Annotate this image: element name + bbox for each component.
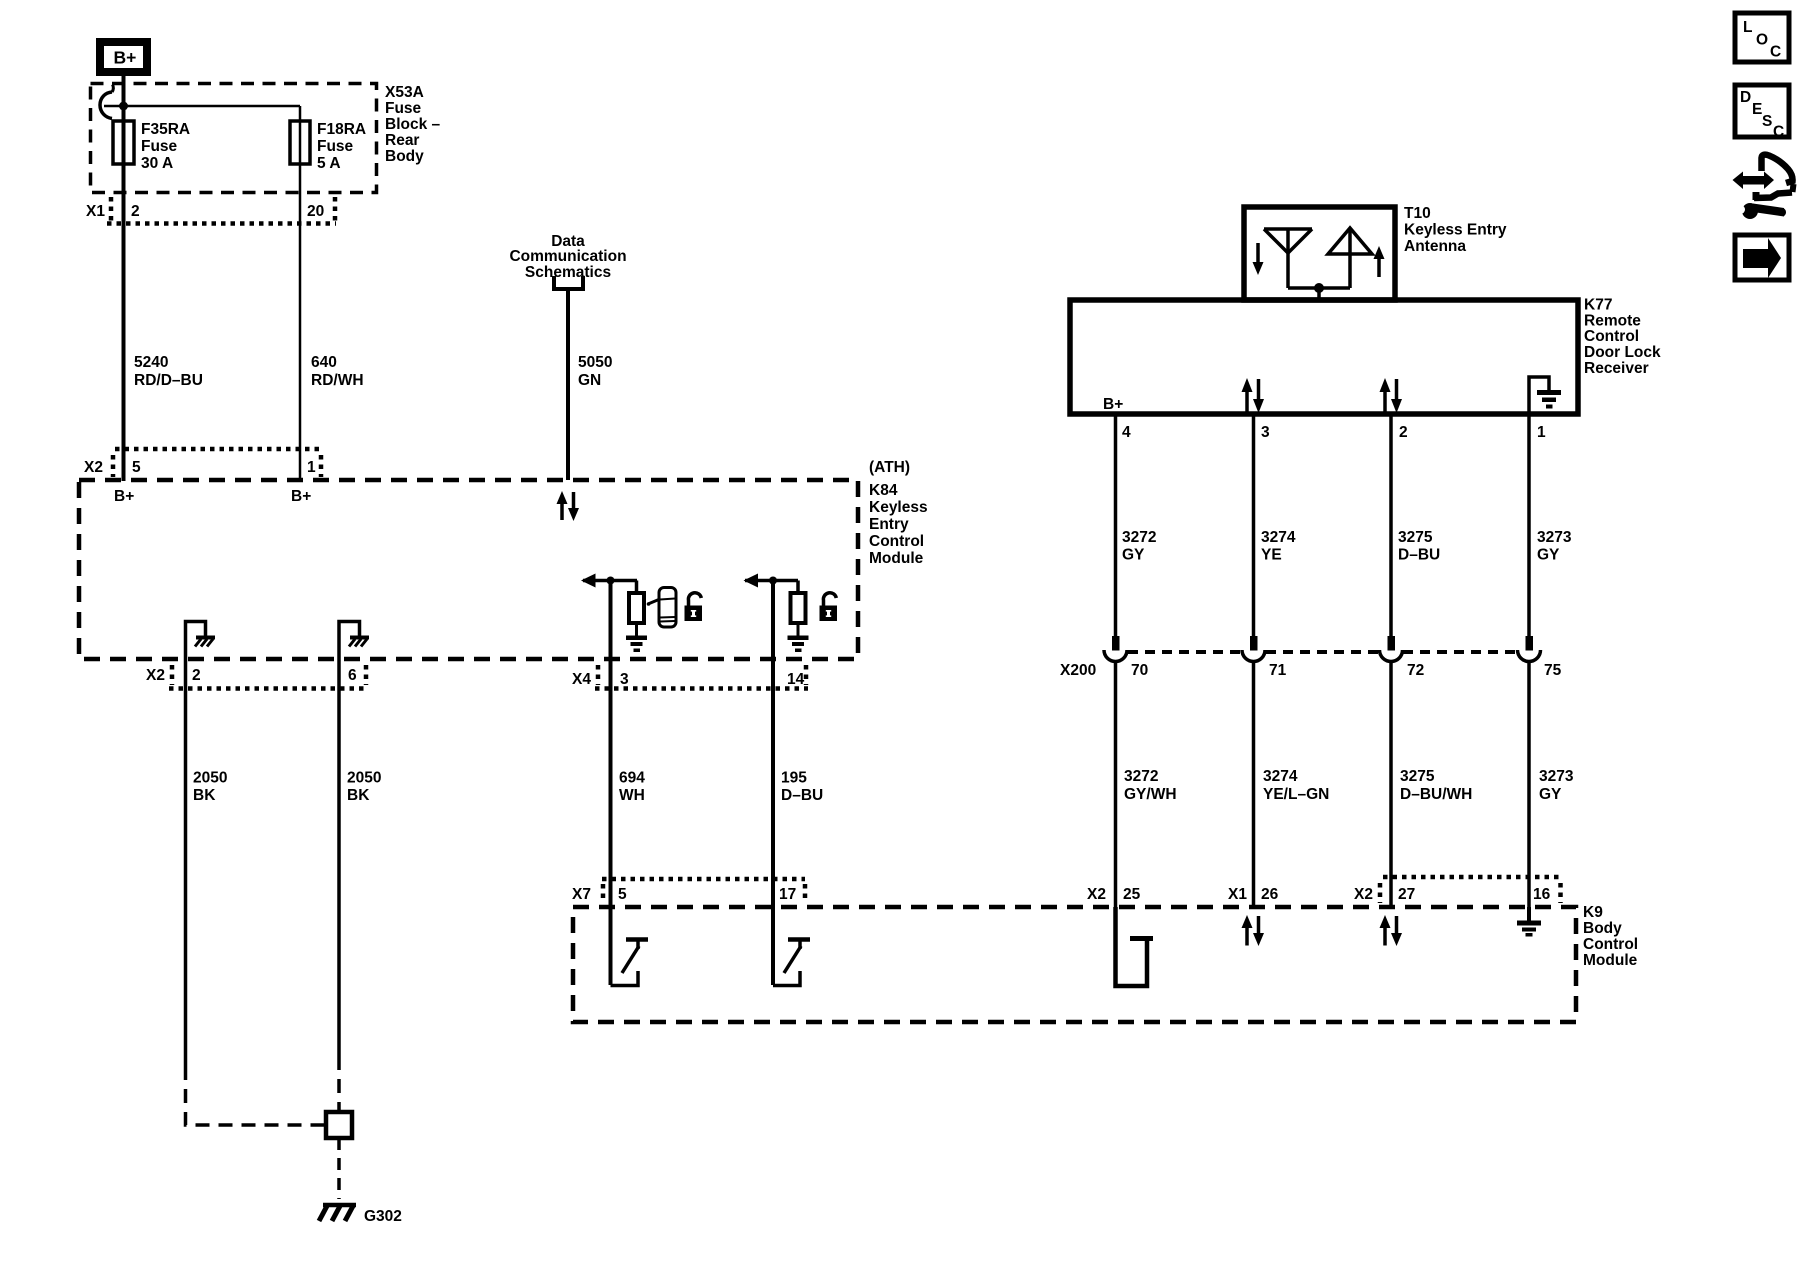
wire 3275 D-BU/WH (X200-72 to K9 X2-27) xyxy=(1389,661,1393,907)
svg-text:GN: GN xyxy=(578,372,601,389)
X200 dashed tie lines xyxy=(1128,650,1516,654)
svg-text:5050: 5050 xyxy=(578,354,612,371)
svg-text:X1: X1 xyxy=(86,203,105,220)
svg-text:3274: 3274 xyxy=(1261,529,1296,546)
svg-text:2: 2 xyxy=(192,667,201,684)
wire 2050 BK from X2 pin 2 xyxy=(184,659,188,1066)
fuse F18RA 5 A xyxy=(290,121,310,164)
label (ATH) K84 Keyless Entry Control Module xyxy=(869,459,928,567)
svg-text:640: 640 xyxy=(311,354,337,371)
connector X1 row (pins 2, 20) xyxy=(86,197,336,224)
dashed wire splice to G302 xyxy=(337,1138,341,1199)
X200 terminal at pin 71 xyxy=(1242,636,1287,679)
svg-text:BK: BK xyxy=(347,787,370,804)
forward arrow box xyxy=(1735,235,1789,280)
up arrow (transmit) xyxy=(1374,246,1385,277)
svg-text:2: 2 xyxy=(1399,424,1408,441)
K84 unlock driver output (pin 3) xyxy=(581,574,637,594)
svg-text:B+: B+ xyxy=(114,488,134,505)
svg-text:30 A: 30 A xyxy=(141,155,173,172)
label X53A Fuse Block - Rear Body xyxy=(385,84,441,165)
K9 switch at pin 5 xyxy=(611,940,649,986)
svg-text:X2: X2 xyxy=(1087,886,1106,903)
ground under lock resistor xyxy=(788,623,809,652)
wire 3273 GY (X200-75 to K9 pin 16) xyxy=(1527,661,1531,907)
svg-text:K9: K9 xyxy=(1583,904,1603,921)
svg-text:5240: 5240 xyxy=(134,354,168,371)
label K77 Remote Control Door Lock Receiver xyxy=(1584,297,1661,378)
svg-text:C: C xyxy=(1773,124,1784,141)
car icon xyxy=(647,588,676,628)
svg-text:(ATH): (ATH) xyxy=(869,459,910,476)
svg-text:Antenna: Antenna xyxy=(1404,238,1466,255)
svg-text:25: 25 xyxy=(1123,886,1141,903)
X200 terminal at pin 75 xyxy=(1518,636,1562,679)
svg-text:S: S xyxy=(1762,113,1772,130)
ground G302 xyxy=(319,1205,402,1225)
svg-text:X200: X200 xyxy=(1060,662,1096,679)
svg-text:Fuse: Fuse xyxy=(141,138,178,155)
svg-text:Keyless Entry: Keyless Entry xyxy=(1404,222,1507,239)
svg-text:17: 17 xyxy=(779,886,796,903)
svg-text:Schematics: Schematics xyxy=(525,264,611,281)
svg-text:D: D xyxy=(1740,89,1751,106)
svg-text:3275: 3275 xyxy=(1398,529,1433,546)
serial data bidirectional arrows at K84 xyxy=(557,491,580,521)
svg-text:X4: X4 xyxy=(572,671,591,688)
connector X2 row at K84 bottom (pins 2, 6) xyxy=(146,665,368,689)
svg-text:X53A: X53A xyxy=(385,84,424,101)
svg-text:5: 5 xyxy=(132,459,141,476)
svg-text:1: 1 xyxy=(1537,424,1546,441)
svg-text:Body: Body xyxy=(1583,920,1622,937)
svg-text:27: 27 xyxy=(1398,886,1415,903)
svg-text:1: 1 xyxy=(307,459,316,476)
svg-text:16: 16 xyxy=(1533,886,1551,903)
svg-text:Module: Module xyxy=(1583,952,1638,969)
K84 lock driver output (pin 14) xyxy=(744,574,799,594)
label T10 Keyless Entry Antenna xyxy=(1404,205,1507,255)
down arrow (receive) xyxy=(1253,243,1264,275)
connector X7 row (pins 5, 17) xyxy=(572,879,805,903)
ground under unlock resistor xyxy=(626,623,647,652)
DESC hyperlink box xyxy=(1735,85,1789,141)
svg-text:BK: BK xyxy=(193,787,216,804)
K9 serial arrows at pin 26 xyxy=(1242,915,1265,946)
svg-text:GY/WH: GY/WH xyxy=(1124,786,1177,803)
wire 3275 D-BU (pin 2) xyxy=(1389,414,1393,636)
K84 internal ground at pin 6 xyxy=(339,622,369,660)
svg-text:Communication: Communication xyxy=(509,248,626,265)
connector labels X2 25 / X1 26 / X2 27 / 16 xyxy=(1087,886,1551,903)
svg-text:6: 6 xyxy=(348,667,357,684)
resistor (unlock driver) xyxy=(629,593,644,623)
svg-text:5: 5 xyxy=(618,886,627,903)
unlock padlock icon xyxy=(685,593,703,621)
K9 terminal hook at pin 25 xyxy=(1116,907,1154,986)
svg-text:72: 72 xyxy=(1407,662,1424,679)
svg-text:694: 694 xyxy=(619,770,645,787)
wire 3272 GY/WH (X200-70 to K9 X2-25) xyxy=(1114,661,1118,907)
svg-text:E: E xyxy=(1752,101,1762,118)
wire B+ feed down through fuse F35RA to X2 pin 5 xyxy=(122,76,126,481)
lock padlock icon xyxy=(820,593,838,621)
svg-text:3274: 3274 xyxy=(1263,768,1298,785)
svg-text:195: 195 xyxy=(781,770,807,787)
svg-text:D–BU: D–BU xyxy=(1398,547,1440,564)
svg-text:3272: 3272 xyxy=(1124,768,1158,785)
module K9 dashed box xyxy=(573,907,1576,1022)
svg-text:X1: X1 xyxy=(1228,886,1247,903)
svg-text:Rear: Rear xyxy=(385,132,419,149)
antenna junction node xyxy=(1314,283,1324,293)
svg-text:K77: K77 xyxy=(1584,297,1612,314)
wire 5050 GN serial data xyxy=(566,289,570,480)
svg-text:Control: Control xyxy=(1584,328,1639,345)
svg-text:RD/WH: RD/WH xyxy=(311,372,364,389)
svg-text:L: L xyxy=(1743,19,1752,36)
svg-text:YE: YE xyxy=(1261,547,1282,564)
wire antenna to K77 xyxy=(1317,288,1321,300)
svg-text:71: 71 xyxy=(1269,662,1287,679)
clip symbol at fuse block feed xyxy=(100,92,112,119)
svg-text:F35RA: F35RA xyxy=(141,121,190,138)
X200 terminal at pin 70 xyxy=(1104,636,1148,679)
svg-text:X2: X2 xyxy=(146,667,165,684)
svg-text:Keyless: Keyless xyxy=(869,499,928,516)
X200 terminal at pin 72 xyxy=(1380,636,1425,679)
svg-text:T10: T10 xyxy=(1404,205,1431,222)
svg-text:Fuse: Fuse xyxy=(317,138,354,155)
receive antenna symbol xyxy=(1264,229,1319,288)
wire 195 D-BU from K84 X4-14 to K9 X7-17 xyxy=(771,580,775,985)
antenna T10 box xyxy=(1244,207,1395,300)
svg-text:3: 3 xyxy=(620,671,629,688)
svg-text:D–BU/WH: D–BU/WH xyxy=(1400,786,1472,803)
svg-text:Fuse: Fuse xyxy=(385,100,422,117)
K9 ground at pin 16 xyxy=(1517,907,1541,937)
svg-text:70: 70 xyxy=(1131,662,1148,679)
K77 serial arrows at pin 3 xyxy=(1242,378,1265,413)
K9 serial arrows at pin 27 xyxy=(1380,915,1403,946)
svg-text:Door Lock: Door Lock xyxy=(1584,344,1661,361)
svg-text:B+: B+ xyxy=(114,48,137,68)
svg-text:75: 75 xyxy=(1544,662,1562,679)
svg-text:5 A: 5 A xyxy=(317,155,341,172)
svg-text:3272: 3272 xyxy=(1122,529,1156,546)
svg-text:Control: Control xyxy=(869,533,924,550)
wire 2050 BK from X2 pin 6 xyxy=(337,659,341,1056)
wire label 640 RD/WH xyxy=(311,354,364,389)
svg-text:3273: 3273 xyxy=(1537,529,1572,546)
svg-text:X2: X2 xyxy=(1354,886,1373,903)
svg-text:2: 2 xyxy=(131,203,140,220)
wire 3272 GY (pin 4) xyxy=(1114,414,1118,636)
wire 694 WH from K84 X4-3 to K9 X7-5 xyxy=(609,580,613,985)
svg-text:X2: X2 xyxy=(84,459,103,476)
fuse block X53A dashed box xyxy=(91,84,377,193)
transmit antenna symbol xyxy=(1319,228,1372,288)
svg-text:2050: 2050 xyxy=(193,770,227,787)
svg-text:K84: K84 xyxy=(869,482,898,499)
svg-text:Body: Body xyxy=(385,148,424,165)
diagnostic tool icon (double arrow, curved arrow, wrench) xyxy=(1733,155,1794,219)
connector dotted box (pins 27, 16) xyxy=(1380,877,1561,903)
K9 switch at pin 17 xyxy=(773,940,810,986)
resistor (lock driver) xyxy=(791,593,806,623)
svg-text:GY: GY xyxy=(1539,786,1562,803)
fuse F35RA 30 A xyxy=(113,121,134,164)
svg-text:X7: X7 xyxy=(572,886,591,903)
svg-text:20: 20 xyxy=(307,203,324,220)
K77 pin numbers 4 3 2 1 xyxy=(1122,424,1546,441)
wire 3274 YE/L-GN (X200-71 to K9 X1-26) xyxy=(1252,661,1256,907)
svg-text:3: 3 xyxy=(1261,424,1270,441)
power symbol B+ xyxy=(100,42,147,72)
svg-text:G302: G302 xyxy=(364,1208,402,1225)
svg-text:F18RA: F18RA xyxy=(317,121,366,138)
svg-text:3275: 3275 xyxy=(1400,768,1435,785)
wire label 5240 RD/D-BU xyxy=(134,354,203,389)
svg-text:4: 4 xyxy=(1122,424,1131,441)
svg-text:Module: Module xyxy=(869,550,924,567)
svg-text:26: 26 xyxy=(1261,886,1279,903)
svg-text:WH: WH xyxy=(619,787,645,804)
svg-text:B+: B+ xyxy=(291,488,311,505)
svg-text:Receiver: Receiver xyxy=(1584,360,1649,377)
connector X4 row (pins 3, 14) xyxy=(572,665,808,689)
wire fuse F18RA down to X2 pin 1 xyxy=(299,106,302,481)
svg-text:RD/D–BU: RD/D–BU xyxy=(134,372,203,389)
svg-text:3273: 3273 xyxy=(1539,768,1574,785)
svg-text:C: C xyxy=(1770,44,1781,61)
svg-text:Control: Control xyxy=(1583,936,1638,953)
K77 serial arrows at pin 2 xyxy=(1380,378,1403,413)
wire 3273 GY (pin 1) xyxy=(1527,414,1531,636)
K77 internal ground (pin 1) xyxy=(1529,377,1561,412)
K84 internal ground at pin 2 xyxy=(186,622,216,660)
svg-text:14: 14 xyxy=(787,671,805,688)
junction node xyxy=(119,102,128,111)
LOC hyperlink box xyxy=(1735,13,1789,62)
svg-text:Entry: Entry xyxy=(869,516,909,533)
svg-text:B+: B+ xyxy=(1103,396,1123,413)
connector X2 row at K84 top (pins 5, 1) xyxy=(84,449,321,477)
svg-text:Block –: Block – xyxy=(385,116,441,133)
svg-text:2050: 2050 xyxy=(347,770,381,787)
wire 3274 YE (pin 3) xyxy=(1252,414,1256,636)
svg-text:Remote: Remote xyxy=(1584,313,1641,330)
svg-text:YE/L–GN: YE/L–GN xyxy=(1263,786,1329,803)
splice block xyxy=(326,1112,352,1138)
svg-text:GY: GY xyxy=(1122,547,1145,564)
svg-text:O: O xyxy=(1756,32,1768,49)
module K84 dashed box xyxy=(79,480,858,659)
svg-text:GY: GY xyxy=(1537,547,1560,564)
svg-text:D–BU: D–BU xyxy=(781,787,823,804)
wire junction to fuse F18RA xyxy=(104,105,300,108)
label K9 Body Control Module xyxy=(1583,904,1638,969)
receiver K77 box xyxy=(1070,300,1578,414)
